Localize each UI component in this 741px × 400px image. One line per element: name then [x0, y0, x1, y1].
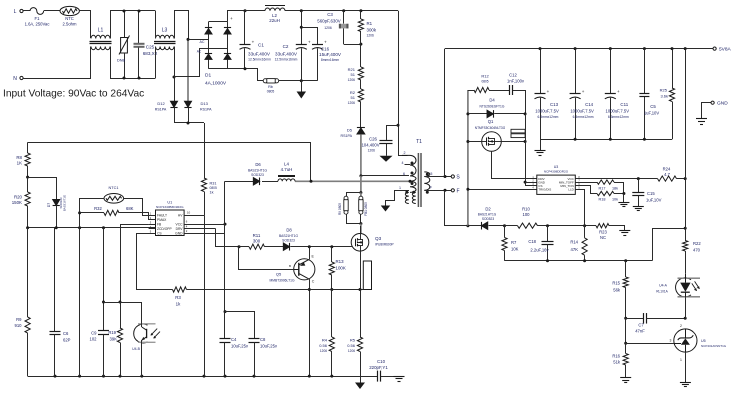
capacitor C16 [301, 28, 317, 45]
svg-text:1uF,10V: 1uF,10V [644, 111, 660, 116]
fuse F1 [30, 8, 44, 15]
svg-text:D5: D5 [347, 128, 353, 133]
svg-text:1206: 1206 [367, 34, 375, 38]
wire [501, 141, 525, 143]
svg-text:0805: 0805 [210, 186, 218, 190]
resistor R24 4.7 [658, 176, 677, 181]
wire to bridge AC1 [187, 39, 189, 101]
svg-text:12.5mmx16mm: 12.5mmx16mm [248, 58, 271, 62]
inductor L4 4.7uH [278, 179, 295, 181]
svg-text:R13: R13 [336, 259, 345, 264]
capacitor C11 [610, 49, 612, 94]
svg-text:C7: C7 [638, 323, 644, 328]
wire [525, 182, 537, 184]
IC U1 NCP1340 [156, 210, 185, 236]
wire [23, 10, 30, 12]
svg-text:B: B [289, 264, 291, 268]
diode D13 [184, 101, 191, 107]
svg-text:RS1PA: RS1PA [340, 134, 352, 138]
capacitor C5 [644, 49, 646, 94]
optocoupler U4-A LED [676, 278, 691, 297]
svg-text:1: 1 [399, 186, 401, 190]
bridge rectifier D1 [209, 21, 228, 23]
svg-text:R4: R4 [322, 338, 328, 343]
wire TRIG [468, 189, 537, 191]
svg-text:R19: R19 [108, 330, 116, 335]
svg-text:6.3mmx12mm: 6.3mmx12mm [538, 115, 559, 119]
svg-text:6: 6 [403, 172, 405, 176]
svg-text:F: F [456, 188, 459, 194]
choke L3 [156, 35, 175, 38]
wire primary ground rail [28, 376, 360, 378]
svg-text:2.5ohm: 2.5ohm [63, 22, 77, 27]
wire opto emitter [141, 340, 143, 376]
svg-text:1000uF,7.5V: 1000uF,7.5V [570, 109, 594, 114]
svg-text:Rb: Rb [268, 85, 273, 89]
svg-text:SOD323: SOD323 [282, 238, 295, 242]
svg-text:51: 51 [351, 72, 356, 77]
svg-text:NTMFS5C604NLT3G: NTMFS5C604NLT3G [475, 126, 506, 130]
svg-text:300k: 300k [367, 28, 377, 33]
svg-text:TRIG/DIS: TRIG/DIS [538, 188, 551, 192]
svg-text:1206: 1206 [320, 349, 327, 353]
svg-text:RL101A: RL101A [656, 290, 668, 294]
capacitor C13 [540, 49, 542, 94]
svg-text:RS1PA: RS1PA [155, 108, 167, 112]
ground arrow primary [360, 376, 362, 382]
svg-text:1.6A, 250Vac: 1.6A, 250Vac [25, 22, 50, 27]
capacitor C6 62P [54, 228, 56, 331]
wire to T1 pin 2 [399, 11, 408, 156]
svg-text:U4-A: U4-A [659, 284, 667, 288]
resistor R17 18k [575, 182, 597, 184]
svg-text:C14: C14 [585, 102, 594, 107]
svg-text:2: 2 [680, 324, 682, 328]
svg-text:0805: 0805 [481, 80, 488, 84]
svg-text:AC: AC [197, 50, 202, 54]
svg-text:C25: C25 [146, 45, 155, 50]
svg-text:R17: R17 [599, 186, 606, 190]
wire source [360, 251, 362, 289]
wire [468, 141, 482, 143]
wire [174, 122, 204, 124]
svg-text:D4: D4 [489, 98, 495, 103]
svg-text:GND: GND [175, 231, 183, 235]
terminal 5V8A [713, 47, 716, 50]
svg-text:R7: R7 [511, 240, 517, 245]
svg-text:NC: NC [600, 235, 606, 240]
svg-text:150K: 150K [12, 200, 22, 205]
wire base [239, 247, 294, 270]
svg-text:R11: R11 [253, 233, 261, 238]
capacitor C18 2.2uF [547, 226, 549, 242]
wire [279, 80, 318, 82]
svg-text:R18: R18 [599, 197, 606, 201]
capacitor C12 1nF [489, 90, 510, 92]
wire top rail [245, 10, 265, 12]
wire F [424, 190, 451, 192]
wire sense bus [505, 260, 653, 262]
ground earth [619, 230, 630, 232]
svg-text:1206: 1206 [348, 78, 356, 82]
svg-text:+: + [308, 40, 311, 45]
svg-text:220pF,Y1: 220pF,Y1 [369, 365, 388, 370]
svg-text:C3: C3 [327, 12, 333, 17]
svg-text:51: 51 [351, 95, 356, 100]
svg-text:C: C [312, 279, 315, 283]
svg-text:R8: R8 [16, 155, 22, 160]
svg-text:51k: 51k [613, 360, 621, 365]
svg-text:FAULT: FAULT [157, 214, 167, 218]
capacitor C4 10uF [224, 312, 226, 339]
diode D4 [468, 113, 487, 115]
svg-text:D1: D1 [205, 73, 211, 79]
svg-text:HV: HV [178, 214, 183, 218]
wire S [424, 176, 451, 178]
wire opto link [104, 302, 142, 304]
svg-text:C13: C13 [550, 102, 559, 107]
svg-text:100K: 100K [336, 266, 346, 271]
wire FB [121, 225, 149, 329]
wire gate [332, 246, 352, 248]
capacitor C2 [301, 11, 303, 44]
wire secondary S to rail [444, 49, 446, 177]
wire [79, 11, 90, 39]
svg-text:R32: R32 [94, 206, 102, 211]
wire [79, 228, 81, 376]
svg-text:33uF,400V: 33uF,400V [248, 52, 271, 57]
resistor R8 1K [27, 142, 29, 153]
MOSFET Q1 [482, 132, 502, 152]
svg-text:56k: 56k [613, 288, 621, 293]
svg-text:R3: R3 [175, 295, 181, 300]
wire [360, 224, 362, 234]
svg-text:18k: 18k [612, 186, 618, 190]
svg-text:910: 910 [15, 323, 23, 328]
wire [23, 78, 91, 80]
svg-text:R25: R25 [660, 88, 668, 93]
resistor R23 NC [596, 224, 609, 228]
resistor R12 [468, 90, 474, 92]
svg-text:47K: 47K [571, 247, 579, 252]
ground earth [696, 118, 707, 120]
T1 primary winding [402, 155, 416, 181]
wire [155, 11, 157, 39]
capacitor C8 10uF [225, 312, 255, 339]
wire cap ground bus [540, 139, 672, 141]
resistor R18 10k [575, 186, 597, 194]
svg-text:U5: U5 [701, 339, 706, 343]
svg-text:R31: R31 [210, 182, 217, 186]
svg-text:+: + [324, 40, 327, 45]
fusible resistor Rb [263, 79, 267, 83]
svg-text:0805: 0805 [267, 90, 275, 94]
svg-text:SOD523: SOD523 [482, 217, 494, 221]
svg-text:2: 2 [404, 151, 406, 155]
capacitor C14 [575, 49, 577, 94]
wire GND [184, 233, 225, 235]
svg-text:DNB: DNB [117, 59, 125, 63]
svg-text:R16: R16 [612, 354, 620, 359]
ground earth secondary [540, 139, 542, 150]
svg-text:6.3mmx12mm: 6.3mmx12mm [573, 115, 594, 119]
wire R22 chain [685, 49, 687, 241]
svg-text:+: + [582, 89, 585, 94]
svg-text:NTS260ESFT1G: NTS260ESFT1G [480, 105, 505, 109]
svg-text:L: L [14, 9, 17, 15]
svg-text:104,400V: 104,400V [362, 143, 380, 148]
svg-text:U3: U3 [554, 165, 559, 169]
resistor R1 300k [360, 11, 362, 19]
svg-text:C26: C26 [369, 137, 378, 142]
svg-text:100: 100 [523, 212, 531, 217]
svg-text:DRV: DRV [176, 227, 184, 231]
svg-text:Q3: Q3 [375, 236, 382, 241]
wire to bridge AC2 [173, 76, 176, 79]
svg-text:D7: D7 [47, 203, 51, 207]
svg-text:22uH: 22uH [269, 18, 280, 23]
wire top rail [285, 10, 398, 12]
ground earth [680, 382, 691, 384]
wire emitter [309, 247, 311, 260]
resistor R9 0805 [347, 193, 361, 197]
svg-text:C4: C4 [231, 337, 237, 342]
wire [28, 178, 57, 200]
diode D12 [174, 77, 176, 101]
wire [625, 318, 627, 343]
svg-text:C15: C15 [647, 191, 655, 196]
svg-text:R22: R22 [693, 241, 701, 246]
wire bridge - out [228, 69, 264, 81]
svg-text:D12: D12 [157, 101, 165, 106]
diode D5 [360, 102, 362, 127]
svg-text:0.56: 0.56 [319, 343, 328, 348]
svg-text:D2: D2 [485, 207, 491, 212]
diode D2 [468, 225, 481, 227]
svg-text:BAS21HT1G: BAS21HT1G [279, 234, 298, 238]
resistor R22 470 [683, 241, 688, 252]
wire [174, 47, 176, 78]
svg-text:R1: R1 [367, 21, 373, 26]
T1 winding B [410, 181, 416, 192]
shield rect [363, 261, 371, 290]
svg-text:NTC1: NTC1 [109, 186, 119, 190]
svg-text:BAS316T1G: BAS316T1G [63, 194, 67, 211]
svg-text:IPU80R600P: IPU80R600P [375, 243, 394, 247]
wire aux line [225, 181, 253, 183]
resistor R9 910 [27, 228, 29, 317]
wire [525, 90, 527, 114]
svg-text:+: + [617, 89, 620, 94]
svg-text:BAS21HT1G: BAS21HT1G [248, 169, 267, 173]
svg-text:62P: 62P [63, 338, 71, 343]
wire [291, 246, 332, 248]
thermistor NTC1 [104, 194, 124, 204]
svg-text:LLD: LLD [568, 188, 574, 192]
svg-text:NCP1340B3D1R2G: NCP1340B3D1R2G [156, 205, 184, 209]
svg-text:U1: U1 [167, 201, 172, 205]
svg-text:12.5mmx16mm: 12.5mmx16mm [275, 58, 298, 62]
svg-text:BAS21HT1G: BAS21HT1G [478, 213, 497, 217]
shunt regulator U5 NCP431 [674, 329, 697, 352]
wire aux rail [28, 143, 311, 182]
resistor R32 68K [80, 212, 104, 214]
resistor R4 0.56 [331, 290, 333, 338]
ground arrow (bulk) [301, 81, 303, 92]
shield rects [511, 129, 525, 133]
svg-text:4.7: 4.7 [664, 172, 670, 177]
svg-text:1206: 1206 [324, 26, 332, 30]
svg-text:1K: 1K [17, 161, 22, 166]
resistor R19 39K [117, 328, 122, 343]
svg-text:300: 300 [253, 238, 261, 243]
wire [525, 185, 537, 187]
svg-text:8mmx16mm: 8mmx16mm [321, 58, 339, 62]
svg-text:C8: C8 [260, 337, 266, 342]
wire [80, 199, 105, 228]
wire 5V8A rail [445, 48, 713, 50]
wire [155, 47, 157, 79]
resistor R10 100 [505, 225, 518, 227]
svg-text:4A,1000V: 4A,1000V [205, 81, 227, 87]
ground arrow [380, 156, 393, 162]
svg-text:33uF,400V: 33uF,400V [275, 52, 298, 57]
resistor R16 51k [625, 343, 627, 353]
ferrite bead FB1 0805 [360, 193, 362, 197]
svg-text:0.56: 0.56 [347, 343, 356, 348]
wire [685, 297, 687, 318]
wire [685, 352, 687, 382]
svg-text:10uF,25v: 10uF,25v [260, 344, 278, 349]
T1 secondary winding [424, 172, 430, 190]
svg-text:39K: 39K [110, 337, 118, 342]
wire LLD [575, 190, 584, 226]
wire [90, 47, 92, 79]
svg-text:ZCD/OPP: ZCD/OPP [157, 227, 172, 231]
svg-text:5: 5 [431, 172, 433, 176]
svg-text:1k: 1k [210, 191, 214, 195]
svg-text:2.2uF,16v: 2.2uF,16v [530, 248, 549, 253]
svg-text:C12: C12 [509, 73, 517, 78]
svg-text:T1: T1 [416, 139, 422, 145]
svg-text:C2: C2 [283, 44, 289, 49]
svg-text:C1: C1 [258, 43, 264, 48]
wire D5 node to T1 pin 6 [359, 174, 362, 177]
T1 bifilar winding [405, 192, 408, 203]
svg-text:AC: AC [200, 40, 205, 44]
wire SR vertical [467, 90, 469, 226]
svg-text:68K: 68K [126, 206, 134, 211]
svg-text:R12: R12 [481, 74, 489, 79]
resistor R21 51 [360, 44, 362, 67]
svg-text:R9 0805: R9 0805 [338, 203, 342, 215]
resistor R11 300 [239, 246, 249, 248]
svg-text:470: 470 [693, 248, 701, 253]
wire [44, 10, 60, 12]
svg-text:Input Voltage: 90Vac to 264Vac: Input Voltage: 90Vac to 264Vac [3, 89, 144, 100]
wire CS [137, 234, 173, 290]
svg-text:15uF,400V: 15uF,400V [319, 52, 342, 57]
svg-text:R20: R20 [14, 195, 23, 200]
MOSFET Q3 [351, 234, 369, 252]
svg-text:NTC: NTC [65, 16, 74, 21]
svg-text:Q1: Q1 [488, 119, 494, 124]
svg-text:5V8A: 5V8A [719, 47, 732, 53]
wire [525, 114, 527, 186]
svg-text:1206: 1206 [348, 349, 355, 353]
diode D6 [253, 178, 259, 186]
svg-text:C10: C10 [377, 359, 386, 364]
thermistor NTC [60, 6, 79, 15]
svg-text:L1: L1 [98, 28, 104, 34]
wire sense rail [187, 289, 364, 291]
svg-text:R9: R9 [16, 317, 22, 322]
svg-text:R14: R14 [570, 240, 578, 245]
svg-text:+: + [547, 89, 550, 94]
svg-text:NCP4308DDR2G: NCP4308DDR2G [544, 169, 569, 173]
resistor R5 0.56 [360, 290, 362, 338]
svg-text:10: 10 [187, 211, 191, 215]
varistor RV1 (DNB) [124, 11, 126, 38]
capacitor C15 1uF [638, 179, 640, 193]
resistor R15 56k [625, 261, 627, 277]
svg-text:MMBT3906LT1G: MMBT3906LT1G [269, 279, 294, 283]
wire FAULT [124, 199, 149, 216]
svg-text:U4-B: U4-B [132, 347, 140, 351]
svg-text:1nF,100v: 1nF,100v [507, 79, 525, 84]
svg-text:1206: 1206 [348, 101, 356, 105]
svg-text:R23: R23 [599, 230, 607, 235]
wire HV [184, 215, 204, 217]
wire ZCD branch [103, 228, 105, 331]
wire [360, 176, 362, 193]
svg-text:C6: C6 [63, 331, 69, 336]
svg-text:1uF,10V: 1uF,10V [646, 198, 662, 203]
capacitor C25 [138, 11, 140, 43]
ground earth [623, 194, 625, 203]
svg-text:1206: 1206 [368, 149, 376, 153]
svg-text:C9: C9 [91, 331, 97, 336]
svg-text:NCP431AVSNT1G: NCP431AVSNT1G [701, 344, 727, 348]
svg-text:3: 3 [670, 339, 672, 343]
T1 pin 1 aux winding [394, 190, 409, 192]
capacitor C10 220pF Y1 [360, 376, 378, 378]
svg-text:RS1PA: RS1PA [200, 108, 212, 112]
svg-text:1k: 1k [176, 302, 181, 307]
wire [111, 11, 156, 39]
svg-text:1: 1 [680, 358, 682, 362]
svg-text:1000uF,7.5V: 1000uF,7.5V [535, 109, 559, 114]
ground earth [620, 377, 631, 379]
svg-text:1000uF,7.5V: 1000uF,7.5V [606, 109, 630, 114]
capacitor C26 [387, 126, 399, 141]
wire F branch [445, 190, 468, 225]
svg-text:D6: D6 [255, 162, 261, 167]
capacitor C9 102 [98, 330, 109, 332]
wire collector [309, 279, 311, 376]
resistor R13 100K [331, 247, 333, 262]
wire [111, 47, 156, 79]
wire ZCD rail [28, 227, 156, 229]
diode D7 [53, 200, 60, 206]
wire [344, 44, 361, 46]
svg-text:GND: GND [717, 101, 728, 107]
wire VCC out [575, 178, 657, 180]
svg-text:R5: R5 [350, 338, 356, 343]
svg-text:R24: R24 [663, 167, 671, 172]
optocoupler U4-B [134, 324, 148, 343]
ground earth [394, 376, 405, 378]
